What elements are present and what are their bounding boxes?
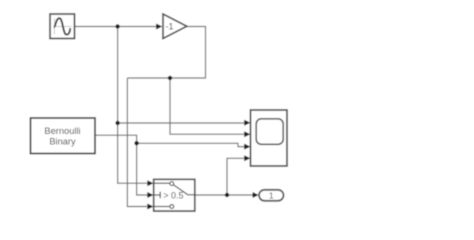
svg-text:Bernoulli: Bernoulli	[44, 126, 80, 136]
arrowhead Scope input 3	[244, 144, 250, 150]
wire Bernoulli Binary output	[95, 135, 137, 143]
arrowhead into Out1	[253, 192, 259, 198]
switch lever	[173, 185, 194, 195]
wire sine branch down to Switch input 1	[118, 27, 148, 184]
sine icon axes	[54, 19, 72, 35]
svg-text:1: 1	[269, 191, 274, 201]
wire gain branch down to Switch input 3	[127, 78, 147, 207]
arrowhead Switch input 2	[147, 192, 153, 198]
junction sine wire	[115, 24, 119, 28]
wire Bernoulli branch to Scope input 3	[137, 143, 245, 146]
switch upper contact stub	[154, 182, 170, 184]
arrowhead Switch input 1	[147, 180, 153, 186]
arrowhead Scope input 2	[244, 131, 250, 137]
scope block Scope	[251, 110, 288, 166]
junction Bernoulli branch	[134, 141, 138, 145]
switch lower contact stub	[154, 206, 170, 208]
wire sine branch to Scope input 1	[118, 122, 244, 124]
switch lower contact circle	[170, 205, 174, 209]
svg-text:> 0.5: > 0.5	[163, 190, 183, 200]
svg-text:Binary: Binary	[49, 136, 76, 146]
wire Switch output to Out1	[195, 194, 253, 196]
junction sine to scope	[115, 121, 119, 125]
sine wave source block	[50, 14, 75, 39]
arrowhead Switch input 3	[147, 204, 153, 210]
wire Sine Wave output to Gain input	[75, 26, 157, 28]
Bernoulli Binary block	[31, 118, 96, 154]
wire Gain output loop	[127, 27, 205, 79]
arrowhead Scope input 4	[244, 155, 250, 161]
arrowhead Scope input 1	[244, 120, 250, 126]
wire Bernoulli branch down to Switch input 2	[137, 143, 148, 195]
svg-text:-1: -1	[165, 22, 173, 32]
outport block Out1	[259, 190, 284, 201]
switch block Switch	[154, 179, 195, 211]
arrowhead into Gain	[156, 24, 162, 30]
junction switch output	[225, 193, 229, 197]
gain block Gain (-1)	[163, 14, 187, 39]
switch control stub with bar	[154, 192, 161, 198]
scope screen	[256, 119, 283, 145]
sine icon wave	[54, 18, 70, 34]
wire switch branch up to Scope input 4	[227, 158, 244, 195]
junction gain loop	[168, 76, 172, 80]
wire gain branch to Scope input 2	[170, 78, 244, 134]
switch upper contact circle	[170, 182, 174, 186]
